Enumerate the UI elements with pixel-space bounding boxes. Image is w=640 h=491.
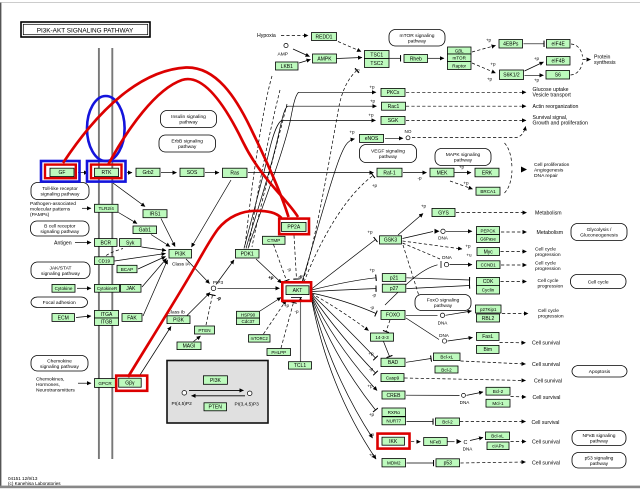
label footer copyright: [8, 481, 61, 486]
svg-text:SOS: SOS: [187, 170, 198, 176]
wire MAGI to PTEN: [194, 336, 201, 342]
wire AKT to CREB: [312, 296, 378, 391]
box HSP90: [237, 311, 260, 318]
wire AKT to p27: [312, 289, 377, 292]
box GYS: [432, 208, 455, 216]
svg-text:Cyclin: Cyclin: [482, 288, 495, 293]
membrane line inner: [111, 48, 113, 459]
svg-text:(c) Kanehisa Laboratories: (c) Kanehisa Laboratories: [8, 481, 61, 486]
svg-text:Gβγ: Gβγ: [125, 381, 135, 387]
box Grb2: [136, 168, 160, 176]
box Raf1: [377, 168, 402, 177]
wire CD19 BCR link: [106, 249, 123, 256]
label Hypoxia: [257, 33, 276, 39]
node NO: [406, 136, 410, 140]
svg-text:Rac1: Rac1: [388, 104, 400, 110]
svg-text:+p: +p: [268, 275, 274, 280]
svg-text:CCND1: CCND1: [481, 263, 497, 268]
node DNA3 circle: [440, 313, 444, 317]
wire CCND1 to cellcycle: [501, 264, 527, 266]
wire CREB to DNA5: [406, 394, 460, 396]
box CDK: [477, 277, 500, 285]
wire Syk to PI3K: [142, 247, 167, 251]
svg-text:NFκB signaling: NFκB signaling: [583, 433, 616, 439]
wire BRCA1 bracket bottom: [505, 171, 513, 194]
svg-text:+p: +p: [463, 181, 469, 186]
svg-text:Neurotransmitters: Neurotransmitters: [36, 387, 75, 393]
box IRS1: [143, 210, 167, 218]
box BRCA1: [476, 187, 500, 195]
wire DNA1 to PEPCK: [446, 230, 472, 232]
label DNA3: [438, 321, 449, 326]
svg-text:Bim: Bim: [483, 347, 492, 353]
svg-text:+p: +p: [368, 113, 374, 118]
svg-text:eIF4B: eIF4B: [552, 59, 566, 65]
svg-text:FoxO signaling: FoxO signaling: [427, 298, 460, 304]
svg-text:pathway: pathway: [454, 158, 473, 164]
svg-text:TCL1: TCL1: [294, 363, 306, 369]
box RXRa: [382, 408, 406, 416]
legend circle PIP3: [247, 391, 252, 396]
wire Ras to Raf1: [248, 172, 374, 174]
legend arrow forward: [189, 389, 244, 391]
label Class IA: [172, 262, 191, 268]
wire AKT to p21: [312, 278, 377, 290]
node PIP3: [211, 286, 216, 291]
pathway Toll-like receptor: [31, 183, 89, 200]
svg-text:+p: +p: [369, 453, 375, 458]
wire PDK1 to AKT: [256, 259, 282, 283]
annotation red rect IKK: [378, 434, 410, 449]
svg-text:Metabolism: Metabolism: [537, 230, 564, 236]
box Syk: [120, 239, 142, 247]
node DNA5 circle: [462, 393, 466, 397]
svg-text:AKT: AKT: [293, 288, 303, 294]
svg-text:pathway: pathway: [408, 39, 427, 45]
svg-text:+p: +p: [421, 204, 427, 209]
svg-text:eIF4E: eIF4E: [552, 42, 566, 48]
wire BclxL2 to survival: [511, 441, 527, 443]
wire mTORC2 to AKT: [264, 301, 287, 335]
svg-text:GβL: GβL: [455, 48, 464, 53]
svg-text:p21: p21: [390, 275, 399, 281]
svg-text:IRS1: IRS1: [149, 212, 160, 218]
wire p27Kip1 to cellcycle: [502, 313, 528, 315]
wire AKT to 14-3-3: [312, 294, 369, 331]
svg-text:Vesicle transport: Vesicle transport: [533, 93, 572, 99]
svg-text:+p: +p: [534, 56, 540, 61]
wire DNA5 to Bcl2: [467, 392, 484, 395]
box CCND1: [477, 261, 501, 269]
box TSC2: [365, 59, 390, 68]
wire AKT to BAD: [312, 294, 376, 358]
pathway Chemokine: [31, 356, 88, 372]
svg-text:PHLPP: PHLPP: [271, 350, 286, 355]
svg-text:+p: +p: [490, 62, 496, 67]
pathway Apoptosis: [572, 366, 627, 378]
pathway Cell cycle: [571, 275, 627, 289]
svg-text:CDK: CDK: [483, 279, 494, 285]
wire eNOS to NO: [385, 137, 403, 139]
box S6: [546, 71, 570, 80]
box Bim: [477, 345, 500, 353]
svg-text:+p: +p: [367, 230, 373, 235]
svg-text:Raptor: Raptor: [452, 63, 466, 68]
box JAK: [121, 284, 142, 292]
annotation red rect Gbg: [116, 376, 147, 391]
svg-text:signaling pathway: signaling pathway: [41, 271, 80, 277]
label cellcycle prog CCND1: [535, 261, 561, 272]
svg-text:PI3K-AKT SIGNALING PATHWAY: PI3K-AKT SIGNALING PATHWAY: [37, 27, 134, 34]
pathway VEGF: [360, 145, 417, 163]
wire p27 to CDK: [407, 286, 470, 289]
svg-text:DNA repair: DNA repair: [534, 173, 558, 179]
svg-text:TSC1: TSC1: [370, 52, 383, 58]
box LKB1: [276, 62, 299, 70]
svg-text:FasL: FasL: [482, 334, 493, 340]
annotation blue rect GF: [41, 161, 80, 182]
pathway mTOR signaling: [389, 30, 445, 47]
svg-text:4EBPs: 4EBPs: [503, 42, 519, 48]
box 4EBPs: [499, 40, 523, 49]
svg-text:Cell survival: Cell survival: [532, 341, 560, 347]
box PTEN: [195, 326, 215, 334]
svg-text:Hypoxia: Hypoxia: [257, 33, 276, 39]
svg-text:mTORC2: mTORC2: [251, 336, 269, 341]
wire bracket to protein synthesis: [583, 59, 591, 61]
svg-text:-p: -p: [216, 296, 221, 301]
label Class Ib: [168, 310, 186, 316]
wire AMP/O2 to AMPK: [293, 49, 310, 57]
svg-text:molecular patterns: molecular patterns: [30, 206, 71, 212]
wire C to BclxL2: [470, 438, 483, 441]
svg-text:Bcl-2: Bcl-2: [493, 389, 504, 394]
wire CTMP to AKT: [274, 245, 287, 281]
svg-text:DNA: DNA: [438, 321, 449, 326]
wire GSK3 to GYS: [398, 214, 423, 236]
svg-text:PI3K: PI3K: [175, 252, 187, 258]
wire AMPK to TSC: [337, 58, 363, 59]
box ITGB: [95, 318, 119, 326]
label DNA2: [442, 255, 453, 260]
wire PIP3 to AKT: [218, 287, 280, 289]
svg-text:p27Kip1: p27Kip1: [480, 307, 497, 312]
svg-text:DNA: DNA: [460, 400, 471, 405]
svg-text:G6Pase: G6Pase: [480, 236, 496, 241]
box Myc: [477, 248, 500, 256]
svg-text:Rheb: Rheb: [410, 56, 422, 62]
svg-text:+p: +p: [465, 244, 471, 249]
box Bcl2b: [436, 418, 460, 425]
wire Cytokine to CytokineR: [77, 287, 91, 289]
svg-text:pathway: pathway: [178, 144, 197, 150]
svg-text:MAGI: MAGI: [183, 344, 196, 350]
wire Ras to PI3K: [192, 180, 232, 247]
svg-text:B cell receptor: B cell receptor: [44, 224, 76, 230]
wire PDK1 to SGK curve: [244, 120, 376, 248]
svg-text:pathway: pathway: [379, 154, 398, 160]
svg-text:IKK: IKK: [389, 439, 398, 445]
box Cyclin: [477, 285, 500, 294]
wire ECM to ITGA: [76, 316, 91, 318]
svg-text:Cdc37: Cdc37: [241, 319, 255, 324]
svg-text:CTMP: CTMP: [267, 238, 280, 243]
svg-text:+p: +p: [370, 99, 376, 104]
box CTMP: [263, 236, 286, 244]
wire FOXO to DNA4: [406, 318, 439, 340]
box BclxL2: [486, 432, 510, 440]
page border top: [0, 1, 640, 3]
box PI3K classIA: [169, 249, 192, 258]
wire GSK3 cross a: [403, 245, 419, 296]
svg-text:+p: +p: [372, 183, 378, 188]
svg-text:Chemokine: Chemokine: [47, 358, 72, 364]
box AKT: [286, 286, 309, 295]
svg-text:PIP3: PIP3: [213, 280, 224, 285]
svg-text:signaling pathway: signaling pathway: [40, 364, 79, 370]
wire IKK to NFkB: [411, 441, 421, 443]
wire Bcl2 stack to survival: [511, 396, 527, 399]
box NUR77: [382, 417, 406, 425]
box BCR: [95, 239, 118, 247]
wire JAK to PI3K: [142, 259, 167, 288]
svg-text:Gluconeogenesis: Gluconeogenesis: [580, 233, 618, 239]
box p27: [382, 284, 406, 292]
annotation red rect PP2A: [279, 219, 309, 235]
svg-text:ITGB: ITGB: [101, 320, 113, 326]
wire AKT to IKK: [312, 298, 373, 438]
wire ERK bracket top: [505, 143, 513, 168]
svg-text:progression: progression: [538, 313, 564, 319]
box eIF4E: [547, 40, 571, 49]
svg-text:-p: -p: [298, 275, 303, 280]
svg-text:+p: +p: [367, 384, 373, 389]
box MEK: [430, 168, 454, 177]
wire TLR24 to Gab1: [119, 213, 138, 224]
box Casp9: [381, 374, 404, 382]
wire PI3K1b to PIP3: [187, 293, 210, 316]
box Cdc37: [237, 318, 260, 325]
svg-text:Hormones,: Hormones,: [36, 382, 60, 388]
svg-text:14-3-3: 14-3-3: [375, 335, 389, 340]
svg-text:-p: -p: [372, 293, 377, 298]
svg-text:progression: progression: [535, 252, 561, 258]
wire LKB1 to AMPK: [299, 60, 311, 64]
box ECM: [52, 314, 75, 322]
box RBL2: [477, 314, 500, 322]
svg-text:p53 signaling: p53 signaling: [585, 455, 614, 461]
svg-text:DNA: DNA: [439, 333, 450, 338]
box TLR24: [95, 204, 119, 212]
svg-text:Myc: Myc: [484, 249, 494, 255]
svg-text:NUR77: NUR77: [386, 419, 401, 424]
svg-text:Focal adhesion: Focal adhesion: [43, 300, 76, 306]
svg-text:-p: -p: [287, 267, 292, 272]
svg-text:FAK: FAK: [127, 315, 137, 321]
wire BCAP to PI3K: [138, 257, 166, 270]
label footer id: [8, 476, 38, 481]
box FasL: [477, 332, 500, 340]
svg-text:signaling pathway: signaling pathway: [40, 229, 79, 235]
label cell survival NUR77: [532, 420, 560, 426]
legend circle PIP2: [182, 391, 187, 396]
svg-text:CREB: CREB: [387, 393, 402, 399]
box Gbg: [119, 378, 142, 387]
svg-text:-p: -p: [370, 305, 375, 310]
svg-text:-p: -p: [294, 309, 299, 314]
svg-text:AMPK: AMPK: [317, 56, 332, 62]
label PAMPs: [30, 201, 76, 218]
svg-text:RTK: RTK: [102, 170, 113, 176]
box BclxL: [434, 353, 461, 361]
wire GYS to metabolism: [456, 212, 527, 214]
wire NUR77 to Bcl2b: [407, 421, 434, 423]
svg-text:Mcl-1: Mcl-1: [492, 401, 504, 406]
svg-text:REDD1: REDD1: [316, 34, 333, 40]
wire GSK3 to Myc: [403, 241, 463, 249]
svg-text:DNA: DNA: [463, 447, 474, 452]
svg-text:Raf-1: Raf-1: [383, 170, 395, 176]
wire AKT to eNOS curve: [302, 139, 355, 282]
svg-text:Growth and proliferation: Growth and proliferation: [533, 121, 588, 127]
box PP2A: [282, 222, 307, 231]
wire TCL1 to AKT: [300, 298, 302, 362]
box p21: [382, 274, 406, 282]
box RTK: [95, 168, 119, 176]
svg-text:progression: progression: [538, 283, 564, 289]
box TCL1: [289, 362, 312, 370]
box Rac1: [382, 102, 406, 110]
wire SOS to Ras: [205, 172, 219, 174]
svg-text:Cell survival: Cell survival: [532, 461, 560, 467]
wire NO dashed right: [412, 127, 526, 138]
title box: [21, 22, 150, 37]
svg-text:Metabolism: Metabolism: [535, 211, 562, 217]
svg-text:C: C: [464, 440, 468, 446]
wire GSK3 to CCND1: [403, 243, 441, 259]
box G6Pase: [477, 235, 500, 243]
box eNOS: [360, 134, 384, 142]
label cell survival BAD: [532, 362, 560, 368]
svg-text:CytokineR: CytokineR: [97, 286, 117, 291]
svg-text:Gab1: Gab1: [139, 228, 151, 234]
pathway Focal adhesion: [31, 297, 88, 308]
label Survival signal: [533, 115, 588, 127]
wire S6 bracket: [571, 63, 583, 76]
box PKCs: [381, 88, 405, 96]
pathway p53: [572, 453, 626, 469]
page border left: [0, 2, 2, 487]
box Bcl2 small: [435, 366, 458, 373]
arrowhead C node: [457, 439, 462, 444]
svg-text:Cell cycle: Cell cycle: [538, 308, 559, 314]
legend PIP conversion box: [167, 361, 268, 424]
wire TSC to Rheb inhibit: [390, 57, 401, 59]
label AMP: [278, 52, 288, 58]
svg-text:Casp9: Casp9: [386, 375, 400, 380]
svg-text:GPCR: GPCR: [98, 381, 112, 386]
arrowhead cell proliferation: [521, 167, 527, 173]
wire HSP90 to AKT: [260, 298, 281, 312]
svg-text:Pathogen-associated: Pathogen-associated: [30, 201, 76, 207]
svg-text:MDM2: MDM2: [387, 461, 401, 466]
label NO: [405, 129, 412, 134]
svg-text:Bcl-xL: Bcl-xL: [440, 355, 453, 360]
box Cytokine: [52, 284, 75, 292]
svg-text:(PAMPs): (PAMPs): [30, 212, 50, 218]
box AMPK: [313, 54, 337, 63]
annotation red rect GF: [45, 165, 76, 179]
label Chemokines: [36, 377, 75, 394]
pathway B cell receptor: [31, 221, 90, 236]
box p53: [436, 459, 460, 467]
node DNA1 circle: [441, 229, 445, 233]
wire dashed into PDK1 b: [249, 90, 280, 247]
svg-text:SGK: SGK: [388, 118, 399, 124]
box TSC1: [365, 51, 390, 59]
box PI3K classIb: [167, 316, 190, 324]
box NFkB: [424, 438, 448, 446]
legend PI3K box: [203, 376, 227, 385]
svg-text:pathway: pathway: [179, 120, 198, 126]
wire CDK to cellcycle: [501, 281, 527, 283]
legend label PIP3: [235, 401, 260, 407]
wire FOXO to 1433 link: [386, 320, 390, 332]
pathway Glycolysis: [571, 224, 627, 241]
svg-text:+p: +p: [487, 77, 493, 82]
wire FAK to PI3K: [143, 260, 168, 316]
wire PDK1 to Rac1 curve: [246, 106, 377, 248]
wire PHLPP to AKT: [281, 303, 294, 349]
wire dashed into PDK1 a: [245, 76, 272, 247]
svg-text:+p: +p: [349, 130, 355, 135]
box Mcl1: [486, 399, 510, 407]
svg-text:-p: -p: [417, 176, 422, 181]
legend label PIP2: [172, 401, 193, 407]
wire PI3K1a to PIP3: [186, 259, 210, 284]
svg-text:signaling pathway: signaling pathway: [41, 192, 80, 198]
label cellcycle prog Myc: [535, 247, 561, 258]
box Ras: [223, 168, 248, 177]
svg-text:NO: NO: [405, 129, 412, 134]
wire Hypoxia to REDD1: [281, 35, 308, 37]
box FAK: [122, 314, 142, 322]
node O2 circle: [284, 43, 288, 47]
label DNA4: [439, 333, 450, 338]
svg-text:ERK: ERK: [482, 170, 493, 176]
wire bar CCND1 node: [440, 261, 442, 268]
wire CD19 to PI3K: [115, 254, 166, 262]
wire PTEN to PIP3 inhibit: [206, 295, 213, 325]
wire mTORC1 to S6K: [472, 63, 496, 73]
wire AKT to Raf1 curve: [304, 176, 373, 283]
wire Chemokines to GPCR: [78, 382, 91, 384]
box GPCR: [95, 379, 116, 388]
svg-text:p27: p27: [390, 286, 399, 292]
svg-text:BRCA1: BRCA1: [480, 189, 496, 194]
svg-text:mTOR signaling: mTOR signaling: [400, 33, 435, 39]
arrowhead DNA1: [435, 229, 440, 234]
legend arrow reverse: [192, 395, 246, 397]
label DNA5: [460, 400, 471, 405]
label Actin reorganization: [533, 104, 579, 110]
svg-text:Cell proliferation: Cell proliferation: [534, 162, 570, 168]
svg-text:PTEN: PTEN: [209, 405, 223, 411]
wire S6K to eIF4B: [525, 62, 544, 71]
wire REDD1 to TSC1 dashed: [338, 42, 361, 52]
box MAGI: [177, 342, 201, 350]
node DNA2 circle: [444, 262, 448, 266]
